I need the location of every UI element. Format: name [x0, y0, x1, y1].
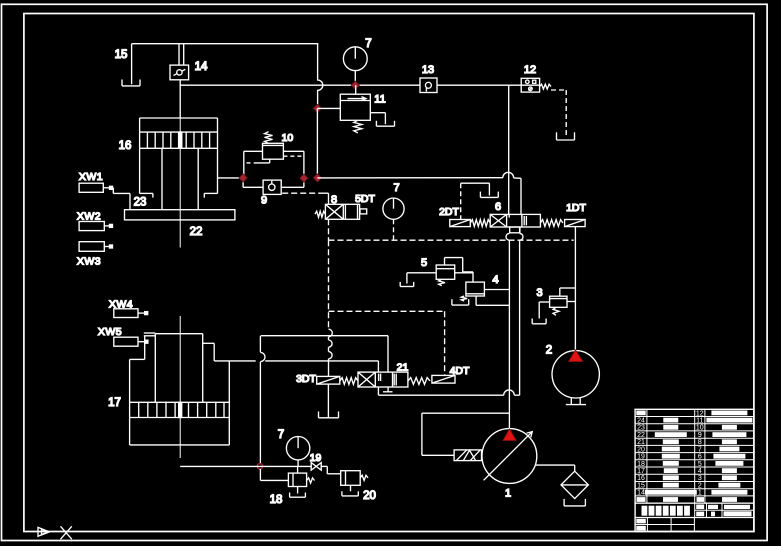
svg-text:12: 12 — [696, 410, 704, 417]
pilot bracket valve 5 — [444, 258, 446, 265]
valve 12 (with spring) — [521, 78, 539, 92]
svg-text:17: 17 — [637, 468, 645, 475]
svg-text:15: 15 — [637, 483, 645, 490]
svg-text:19: 19 — [637, 454, 645, 461]
filter below pump — [561, 471, 588, 498]
svg-text:8: 8 — [698, 439, 702, 446]
wire valve 11 right port to tank — [370, 112, 385, 114]
svg-text:8: 8 — [331, 194, 337, 206]
svg-text:XW3: XW3 — [77, 256, 101, 268]
svg-text:10: 10 — [282, 132, 294, 144]
svg-text:21: 21 — [397, 362, 409, 374]
svg-text:2DT: 2DT — [439, 206, 459, 218]
svg-text:16: 16 — [119, 140, 132, 152]
svg-text:16: 16 — [637, 475, 645, 482]
svg-text:3: 3 — [698, 475, 702, 482]
drain line dashed left vertical x328 — [328, 240, 330, 329]
wire P vertical from main line to valve 6 — [508, 85, 510, 214]
svg-text:23: 23 — [637, 425, 645, 432]
throttle valve 19 (bowtie) — [311, 463, 321, 471]
svg-text:6: 6 — [698, 454, 702, 461]
tank 15 symbol — [131, 44, 133, 84]
pilot line dashed to 4DT — [444, 311, 446, 375]
valve 6 top port ticks — [508, 214, 510, 217]
svg-text:21: 21 — [637, 439, 645, 446]
svg-text:7: 7 — [393, 182, 399, 194]
node junction at valve 11 inlet — [313, 104, 321, 112]
sequence valve 3 — [550, 296, 567, 307]
wire loop right valve 10 — [283, 150, 304, 152]
valve 6 body — [490, 214, 540, 227]
svg-text:9: 9 — [698, 432, 702, 439]
svg-text:1: 1 — [698, 490, 702, 497]
table row cells — [636, 411, 645, 416]
pressure gauge 7 bottom — [286, 437, 309, 460]
title text block — [642, 506, 648, 516]
svg-text:19: 19 — [310, 452, 322, 464]
tank under 3DT — [319, 417, 339, 419]
cylinder 16 lips — [140, 192, 153, 194]
wire cylinder 16 to junction — [218, 177, 244, 179]
sensor XW3 — [79, 242, 104, 252]
wire valve 6 bottom stubs with hops — [508, 232, 510, 235]
drain line dashed y240 — [329, 239, 574, 241]
wire loop left valve 10 — [244, 150, 263, 152]
check valve 9 — [263, 180, 281, 194]
pressure gauge 7 middle — [383, 198, 404, 219]
wire stubs into valve 14 — [178, 44, 180, 65]
valve 21 drain mark — [387, 387, 389, 392]
pump 1 circle — [482, 429, 537, 484]
cylinder 17 axis — [179, 316, 181, 402]
svg-text:14: 14 — [637, 490, 645, 497]
wire 1DT drain / motor line — [574, 227, 576, 350]
wire vertical junction down to main line — [316, 108, 318, 177]
svg-text:5DT: 5DT — [355, 193, 375, 205]
spring of valve 3 — [553, 307, 559, 315]
pilot drain valve 8 bottom (dashed) — [328, 219, 330, 240]
node junction gauge stem on main line — [351, 81, 359, 89]
tank under valve 11 — [376, 125, 394, 127]
svg-text:20: 20 — [637, 446, 645, 453]
solenoid 4DT — [432, 375, 455, 383]
spring 1DT side — [540, 220, 563, 227]
pilot line valve 12 to tank (dashed) — [551, 89, 566, 91]
svg-text:5: 5 — [421, 257, 427, 269]
wire top line y43 — [132, 43, 319, 45]
pilot line valve 9 to valve 8 (dashed) — [282, 192, 320, 194]
check valve 14 — [170, 65, 189, 80]
svg-text:4DT: 4DT — [450, 365, 470, 377]
svg-text:18: 18 — [270, 494, 283, 506]
svg-text:3DT: 3DT — [296, 373, 316, 385]
relief valve 10 — [263, 143, 284, 159]
spring of valve 5 — [439, 279, 445, 286]
wire bottom line y466 — [180, 465, 311, 467]
pilot sense line valve 10 bottom — [269, 159, 271, 163]
pump 1 flow triangle — [503, 429, 516, 441]
wire pump suction — [535, 464, 575, 466]
cylinder 17 ram — [155, 333, 202, 335]
spring 2DT side — [470, 220, 490, 227]
wire valve14 to cylinder 16 — [179, 80, 181, 118]
tank at valve 4 — [452, 304, 469, 306]
tank under valve 18 — [290, 496, 306, 498]
wire pump control loop — [422, 454, 454, 456]
spring 3DT side — [340, 378, 358, 385]
tank under valve 12 — [557, 139, 575, 141]
pilot line under valve 10 (dashed) — [283, 155, 302, 157]
relief valve 20 — [341, 471, 361, 486]
reducing valve 4 — [466, 282, 485, 296]
cylinder 16 hatch cells — [146, 132, 148, 148]
wire junction to valve 11 — [317, 107, 340, 109]
title block table — [635, 409, 754, 531]
valve 11 (one-way throttle) — [340, 94, 370, 120]
svg-text:XW5: XW5 — [98, 326, 122, 338]
spring of valve 10 — [265, 132, 273, 144]
svg-text:9: 9 — [261, 195, 267, 207]
svg-text:24: 24 — [637, 418, 645, 425]
svg-text:7: 7 — [365, 38, 371, 50]
motor 2 base / tank — [570, 398, 572, 405]
spring of valve 11 — [354, 120, 362, 133]
sequence valve 5 — [436, 265, 455, 279]
svg-text:6: 6 — [495, 201, 501, 213]
tank under valve 20 — [342, 495, 358, 497]
svg-text:14: 14 — [195, 61, 208, 73]
svg-text:3: 3 — [536, 287, 542, 299]
svg-text:2: 2 — [698, 483, 702, 490]
wire valve 4 bottom port — [475, 296, 477, 305]
svg-text:13: 13 — [422, 64, 434, 76]
wire valve 5 left port to tank — [407, 272, 436, 274]
svg-text:4: 4 — [698, 468, 702, 475]
svg-text:7: 7 — [698, 446, 702, 453]
wire line A — [261, 335, 388, 337]
svg-text:15: 15 — [115, 49, 128, 61]
wire valve 4 right port — [484, 289, 509, 291]
cylinder 16 piston walls — [161, 148, 163, 209]
wire loop bottom to valve 9 — [242, 178, 244, 187]
seal step 23 — [112, 188, 114, 194]
svg-text:1: 1 — [505, 488, 511, 500]
relief valve 18 — [288, 473, 306, 486]
wire valve 3 left port to tank — [539, 301, 549, 303]
wire return line y395 with hop — [378, 394, 503, 396]
wire line B cylinder 17 to valve 21 — [214, 360, 256, 362]
svg-text:7: 7 — [278, 429, 284, 441]
wire main pressure line y85 — [180, 84, 420, 86]
wire valve 21 bottom port to return line — [377, 387, 379, 395]
node junction main line crossing — [313, 174, 321, 182]
tank at valve 6 vent — [480, 196, 498, 198]
solenoid valve 8 — [315, 211, 325, 217]
tank under filter — [564, 505, 585, 507]
cylinder 17 outer cup — [130, 358, 145, 360]
svg-text:XW1: XW1 — [79, 171, 103, 183]
cylinder 17 left tab — [144, 332, 156, 334]
spring of valve 12 — [540, 84, 551, 89]
svg-text:18: 18 — [637, 461, 645, 468]
svg-text:20: 20 — [363, 490, 376, 502]
pressure gauge 7 top — [343, 47, 367, 71]
node junction left of loop — [239, 174, 247, 182]
node junction red circle — [257, 464, 262, 469]
svg-text:12: 12 — [524, 64, 536, 76]
wire to valve 20 — [321, 465, 327, 467]
node junction right of loop — [300, 174, 308, 182]
svg-text:10: 10 — [696, 425, 704, 432]
svg-text:23: 23 — [134, 197, 147, 209]
check valve 13 — [420, 78, 437, 93]
drain 3DT to tank — [327, 384, 329, 418]
spring 4DT side — [408, 378, 430, 385]
pump 1 control actuator (hatched box) — [454, 450, 481, 461]
vent 2DT to tank — [460, 183, 462, 219]
spring of valve 4 — [461, 296, 467, 301]
svg-text:1DT: 1DT — [566, 202, 586, 214]
valve 21 body — [358, 372, 408, 387]
svg-text:17: 17 — [108, 397, 121, 409]
svg-text:4: 4 — [492, 274, 498, 286]
pump 1 variable arrow — [484, 432, 533, 481]
svg-text:22: 22 — [190, 226, 203, 238]
wire vertical from top line down to valve 11 — [317, 44, 319, 81]
bottom rows blobs — [636, 519, 646, 524]
tank at valve 3 — [532, 323, 546, 325]
hydraulic motor 2 — [552, 351, 599, 398]
border marker X — [61, 526, 72, 539]
svg-text:11: 11 — [374, 94, 385, 106]
solenoid 1DT — [565, 220, 586, 227]
svg-text:11: 11 — [696, 418, 703, 425]
svg-text:XW2: XW2 — [77, 211, 101, 223]
svg-text:5: 5 — [698, 461, 702, 468]
svg-text:22: 22 — [637, 432, 645, 439]
base plate 22 — [125, 210, 235, 220]
cylinder 16 axis line — [179, 118, 181, 132]
cylinder 17 right step — [203, 342, 215, 344]
wire valve 5 right port — [455, 272, 473, 274]
border marker triangle — [38, 527, 50, 536]
wire valve 3 right port — [567, 301, 575, 303]
cylinder 17 hatch band — [130, 401, 230, 403]
drain line dashed y311 — [329, 310, 445, 312]
svg-text:2: 2 — [546, 345, 552, 357]
tank at valve 5 — [400, 286, 414, 288]
wire line C with hop — [259, 336, 261, 353]
pilot bracket valve 3 — [560, 287, 576, 289]
cylinder 16 body — [140, 117, 218, 119]
motor 2 flow triangle — [569, 350, 583, 362]
wire main line y178 — [317, 177, 502, 179]
